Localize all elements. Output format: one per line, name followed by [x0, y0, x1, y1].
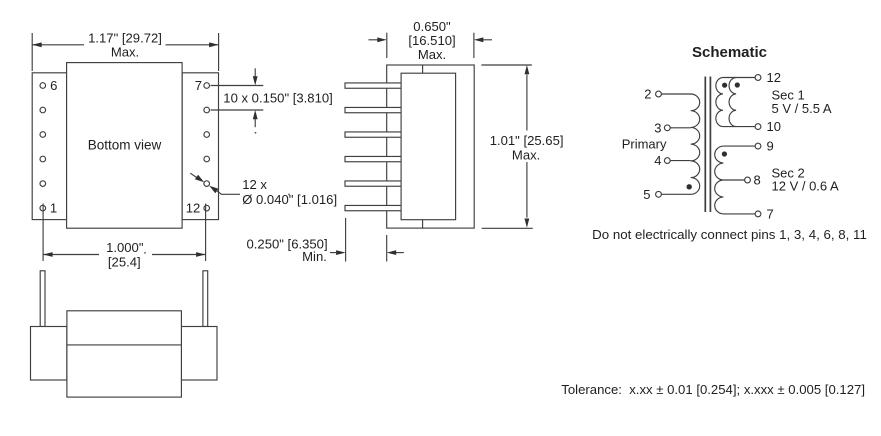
- pin pad 4: [40, 132, 46, 138]
- side view: bottom center tick: [422, 220, 424, 228]
- primary tap wire pin 4: [670, 160, 691, 162]
- stray period mark 1: [255, 132, 257, 134]
- pin pad 8: [204, 107, 210, 113]
- side view: pin 6: [345, 205, 402, 210]
- sec2 polarity dot: [722, 151, 727, 156]
- dim 1.01 down arrowhead: [525, 219, 530, 228]
- transformer core lines: [705, 77, 710, 213]
- stray period mark 2: [288, 194, 290, 196]
- svg-text:5 V / 5.5 A: 5 V / 5.5 A: [772, 101, 832, 116]
- dim 0.650 left arrow: [369, 39, 378, 41]
- svg-text:Max.: Max.: [111, 45, 139, 60]
- sec1 polarity dot A: [722, 83, 727, 88]
- sec2 bottom wire to pin 7: [723, 213, 755, 215]
- svg-text:Tolerance: x.xx ± 0.01 [0.254: Tolerance: x.xx ± 0.01 [0.254]; x.xxx ± …: [561, 382, 865, 397]
- svg-text:12 V / 0.6 A: 12 V / 0.6 A: [772, 179, 840, 194]
- sec2 top wire to pin 9: [723, 145, 755, 147]
- svg-text:1.000": 1.000": [106, 240, 144, 255]
- dim 1.17 extension line right: [218, 33, 220, 71]
- dim 10x0.150 down arrow: [254, 68, 256, 77]
- side view: pin 3: [345, 132, 402, 137]
- side view: outer body outline: [387, 65, 475, 228]
- front view: left flange: [31, 327, 67, 381]
- dim 1.000 extension line left: [42, 204, 44, 262]
- primary tap wire pin 3: [670, 127, 691, 129]
- side view: pin 2: [345, 107, 402, 112]
- dim 0.250 extension line left: [345, 218, 347, 262]
- front view: right flange: [181, 327, 217, 381]
- side view: top center tick: [422, 65, 424, 73]
- dim 10x0.150 upper reference line from pin 7: [211, 85, 264, 87]
- sec1 winding A: [716, 78, 723, 127]
- sec2 tap wire to pin 8: [723, 179, 744, 181]
- dim 1.01 top reference line: [481, 64, 532, 66]
- sec1 bottom wire to pin 10: [723, 126, 755, 128]
- sec1 top wire to pin 12: [723, 77, 755, 79]
- sec1 winding B: [729, 78, 736, 127]
- sec2 terminal pin 8: [745, 177, 751, 183]
- dim 0.650 right arrow: [483, 39, 492, 41]
- svg-text:9: 9: [767, 139, 774, 154]
- svg-text:5: 5: [643, 187, 650, 202]
- svg-text:12 x: 12 x: [242, 177, 267, 192]
- dim 1.000 arrowhead left: [43, 252, 53, 257]
- bottom view: right flange: [182, 73, 218, 220]
- dim 1.01 bottom reference line: [482, 227, 533, 229]
- pin pad 6: [40, 83, 46, 89]
- side view: pin 4: [345, 156, 402, 161]
- svg-text:10: 10: [767, 119, 781, 134]
- side view: inner body outline: [401, 73, 456, 220]
- pin pad 1: [40, 205, 46, 211]
- front view: right pin lead: [203, 271, 208, 327]
- pin pad 12: [204, 205, 210, 211]
- dim 0.250 extension line right: [386, 235, 388, 262]
- pin pad 9: [204, 132, 210, 138]
- callout 12x leader upper arrow: [190, 173, 197, 178]
- pin pad 2: [40, 181, 46, 187]
- sec1 terminal pin 12: [755, 75, 761, 81]
- dim 0.650 extension line left: [386, 33, 388, 58]
- dim 0.650 extension line right: [473, 33, 475, 58]
- pin pad 5: [40, 107, 46, 113]
- svg-text:Schematic: Schematic: [692, 44, 767, 61]
- front view: body split line: [67, 344, 181, 346]
- front view: body: [67, 311, 181, 397]
- front view: left pin lead: [40, 271, 45, 327]
- svg-text:12: 12: [186, 201, 201, 216]
- primary terminal pin 5: [656, 191, 662, 197]
- dim 10x0.150 up arrow: [254, 119, 256, 127]
- svg-text:Bottom view: Bottom view: [88, 137, 162, 152]
- sec1 terminal pin 10: [755, 124, 761, 130]
- pin pad 11: [204, 181, 210, 187]
- primary winding with taps: [661, 94, 699, 194]
- svg-text:Primary: Primary: [622, 136, 667, 151]
- pin pad 7: [204, 83, 210, 89]
- svg-text:8: 8: [754, 173, 761, 188]
- svg-text:6: 6: [50, 78, 57, 93]
- svg-text:4: 4: [654, 153, 661, 168]
- side view: pin 1: [345, 83, 402, 88]
- svg-text:0.650": 0.650": [413, 19, 451, 34]
- bottom view: left flange: [32, 73, 66, 220]
- dim 1.000 dimension line: [43, 254, 206, 256]
- svg-text:1.17" [29.72]: 1.17" [29.72]: [88, 31, 162, 46]
- svg-text:2: 2: [644, 87, 651, 102]
- dim 0.250 left arrow: [330, 252, 336, 254]
- svg-text:Min.: Min.: [302, 249, 327, 264]
- sec1 polarity dot B: [735, 82, 740, 87]
- dim 1.17 arrowhead right: [209, 42, 219, 47]
- svg-text:7: 7: [195, 78, 202, 93]
- svg-text:Max.: Max.: [512, 148, 540, 163]
- primary terminal pin 3: [664, 125, 670, 131]
- svg-text:[16.510]: [16.510]: [408, 33, 455, 48]
- svg-text:7: 7: [767, 206, 774, 221]
- svg-text:3: 3: [654, 120, 661, 135]
- primary terminal pin 2: [656, 91, 662, 97]
- svg-text:1: 1: [50, 201, 57, 216]
- svg-text:Do not electrically connect pi: Do not electrically connect pins 1, 3, 4…: [592, 227, 867, 242]
- dim 1.01 vertical dimension line: [526, 75, 528, 218]
- stray period mark 3: [144, 252, 146, 254]
- dim 1.000 arrowhead right: [196, 252, 206, 257]
- sec2 terminal pin 7: [755, 211, 761, 217]
- bottom view: body outline: [67, 63, 183, 229]
- dim 1.17 dimension line: [32, 44, 218, 46]
- side view: pin 5: [345, 181, 402, 186]
- primary terminal pin 4: [664, 158, 670, 164]
- sec2 winding: [715, 146, 724, 214]
- dim 1.01 up arrowhead: [525, 65, 530, 74]
- svg-text:1.01" [25.65]: 1.01" [25.65]: [490, 133, 564, 148]
- pin pad 3: [40, 156, 46, 162]
- dim 1.17 arrowhead left: [32, 42, 42, 47]
- svg-text:Max.: Max.: [418, 47, 446, 62]
- dim 1.17 extension line left: [31, 33, 33, 71]
- callout 12x leader lower arrow: [209, 186, 218, 194]
- pin pad 10: [204, 156, 210, 162]
- primary polarity dot: [687, 184, 692, 189]
- svg-text:12: 12: [767, 70, 781, 85]
- svg-text:Ø 0.040" [1.016]: Ø 0.040" [1.016]: [242, 192, 337, 207]
- dim 1.000 extension line right: [205, 204, 207, 262]
- dim 0.250 right arrow: [396, 252, 404, 254]
- svg-text:[25.4]: [25.4]: [108, 255, 141, 270]
- svg-text:10 x 0.150" [3.810]: 10 x 0.150" [3.810]: [223, 90, 332, 105]
- dim 10x0.150 lower reference line from pin 8: [211, 109, 264, 111]
- sec2 terminal pin 9: [755, 143, 761, 149]
